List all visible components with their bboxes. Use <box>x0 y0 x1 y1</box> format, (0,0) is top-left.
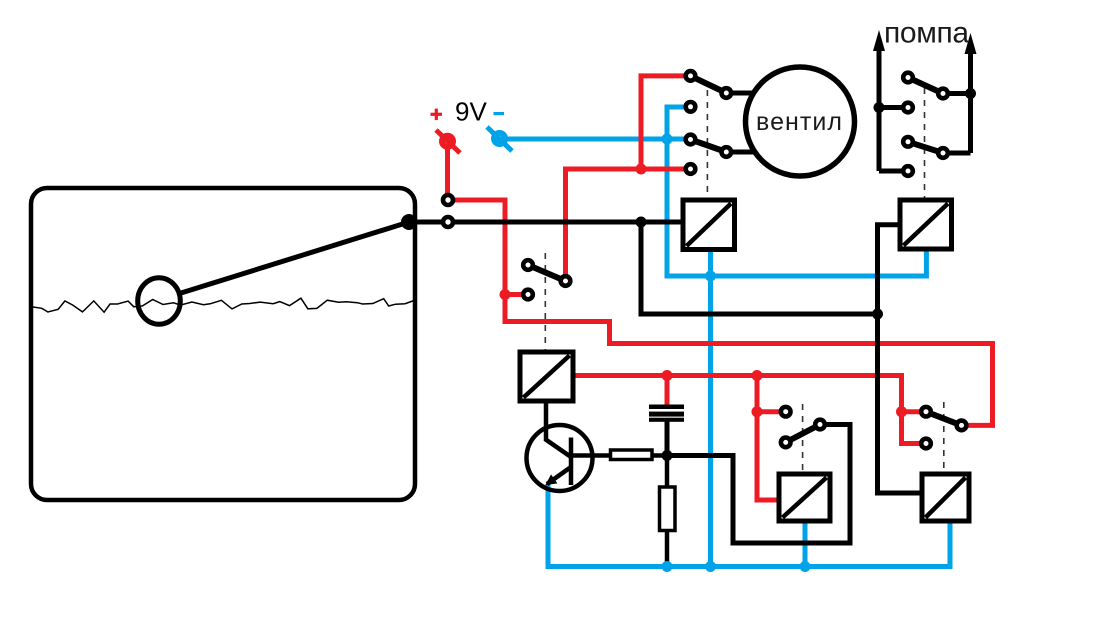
node: black junction pump arrow left <box>874 102 885 113</box>
node: red junction left-bottom contact <box>752 406 763 417</box>
svg-text:вентил: вентил <box>756 108 842 136</box>
wire: black from left-bottom switch common to transistor base node <box>667 425 850 544</box>
wire: red from middle relay coil to right area, capacitor, both bottom switches <box>573 376 926 444</box>
node: red junction right-bottom contact <box>896 406 907 417</box>
node: black junction at pump feed <box>872 309 883 320</box>
svg-text:9V: 9V <box>455 97 487 127</box>
wire: red from connector to middle switch area and long bus to right-bottom switch common <box>448 200 993 425</box>
dashed actuator link: middle relay to middle switch <box>544 253 546 351</box>
wire: blue from left-bottom relay coil down to bottom bus <box>803 521 808 567</box>
relay K3 (middle) <box>520 352 573 401</box>
motor M1 fan (вентил) <box>746 67 855 176</box>
dashed actuator link: fan relay to fan switch <box>706 90 708 199</box>
transistor Q1 <box>527 425 593 491</box>
wire: blue from fan contact 2 down and across to pump relay coil bottom <box>667 107 926 276</box>
float arm <box>181 222 409 293</box>
wire: capacitor bottom lead <box>665 421 670 456</box>
relay K1 (fan) <box>683 200 735 250</box>
wire: red from + terminal down to connector <box>445 145 450 200</box>
node: black junction base node <box>662 450 673 461</box>
capacitor C1 <box>649 405 684 410</box>
wire: black branch down and right to pump relay feed <box>641 222 878 314</box>
node: red junction fan feed <box>636 164 647 175</box>
node: blue junction coil bus <box>705 271 716 282</box>
node: red junction capacitor tap <box>662 370 673 381</box>
relay K2 (pump) <box>900 200 952 249</box>
label: + <box>431 109 443 121</box>
dashed actuator link: right-bottom relay to its switch <box>943 402 945 473</box>
dashed actuator link: left-bottom relay to its switch <box>802 404 804 473</box>
connector pair on feed wires <box>443 195 453 205</box>
switch S1 (fan, DPST) <box>686 71 731 174</box>
switch S5 (right-bottom SPDT) <box>921 407 966 448</box>
wire: red branch to middle switch lower contact <box>505 292 528 297</box>
node: blue junction bottom bus 3 <box>800 561 811 572</box>
pump output arrows <box>873 30 977 171</box>
wire: pump switch stubs <box>879 105 908 110</box>
wire: blue bottom bus from transistor emitter to right-bottom relay coil <box>548 484 950 567</box>
water line <box>33 298 414 312</box>
switch S4 (left-bottom SPDT) <box>781 407 825 447</box>
node: float arm pivot junction <box>401 214 417 230</box>
float <box>138 278 181 324</box>
wire: blue minus bus from battery to fan contact 3 <box>501 137 686 142</box>
relay K4 (left-bottom) <box>779 474 830 521</box>
battery - terminal <box>487 127 512 151</box>
wire: transistor base line <box>571 453 612 458</box>
node: blue junction at minus bus <box>662 134 673 145</box>
switch S2 (pump, DPST) <box>903 73 948 176</box>
wire: black from pump relay coil left down to right-bottom relay coil <box>878 225 923 493</box>
battery + terminal <box>436 130 460 153</box>
node: black junction pump arrow right <box>965 88 976 99</box>
node: red junction at middle switch branch <box>500 289 511 300</box>
wire: fan switch stubs to motor <box>726 91 754 96</box>
node: blue junction bottom bus 2 <box>705 561 716 572</box>
svg-text:помпа: помпа <box>884 17 969 50</box>
wire: vertical resistor leads <box>665 456 670 489</box>
node: blue junction bottom bus 1 <box>662 561 673 572</box>
node: red junction left-bottom feed <box>752 370 763 381</box>
wire: blue from fan relay coil bottom down to bottom bus <box>708 250 713 567</box>
switch S3 (middle SPDT) <box>523 260 570 299</box>
label: - <box>494 112 505 115</box>
dashed actuator link: pump relay to pump switch <box>924 88 926 199</box>
wire: main black wire from tank to fan relay coil <box>409 220 683 225</box>
tank <box>31 188 415 500</box>
resistor R base (horizontal) <box>611 450 653 460</box>
wire: red from middle switch common up to fan contacts 1 and 4 <box>566 169 691 281</box>
node: black junction main wire branch <box>636 217 647 228</box>
resistor R emitter-pull (vertical) <box>660 487 676 531</box>
wire: collector lead from middle relay <box>544 401 549 441</box>
relay K5 (right-bottom) <box>922 474 969 521</box>
